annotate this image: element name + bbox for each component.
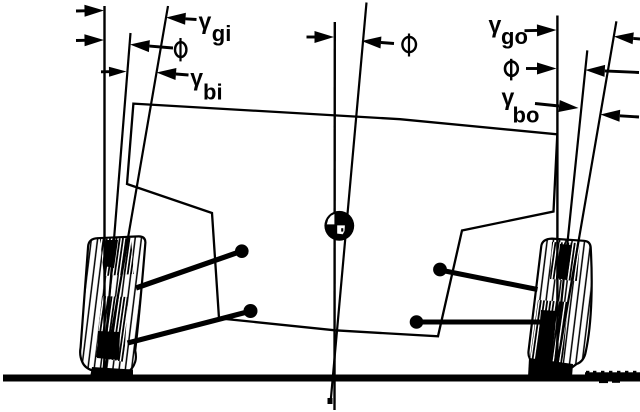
svg-text:go: go [501, 24, 528, 49]
svg-text:bi: bi [203, 79, 223, 104]
svg-text:γ: γ [199, 8, 212, 34]
svg-text:γ: γ [190, 65, 203, 91]
svg-text:γ: γ [489, 12, 502, 38]
svg-text:bo: bo [513, 102, 540, 127]
svg-text:gi: gi [212, 21, 232, 46]
